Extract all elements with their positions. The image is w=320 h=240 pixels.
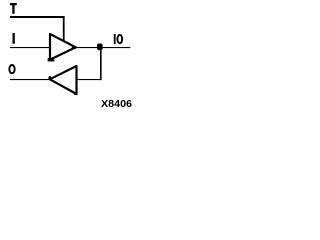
svg-text:X8406: X8406 [101,99,132,110]
